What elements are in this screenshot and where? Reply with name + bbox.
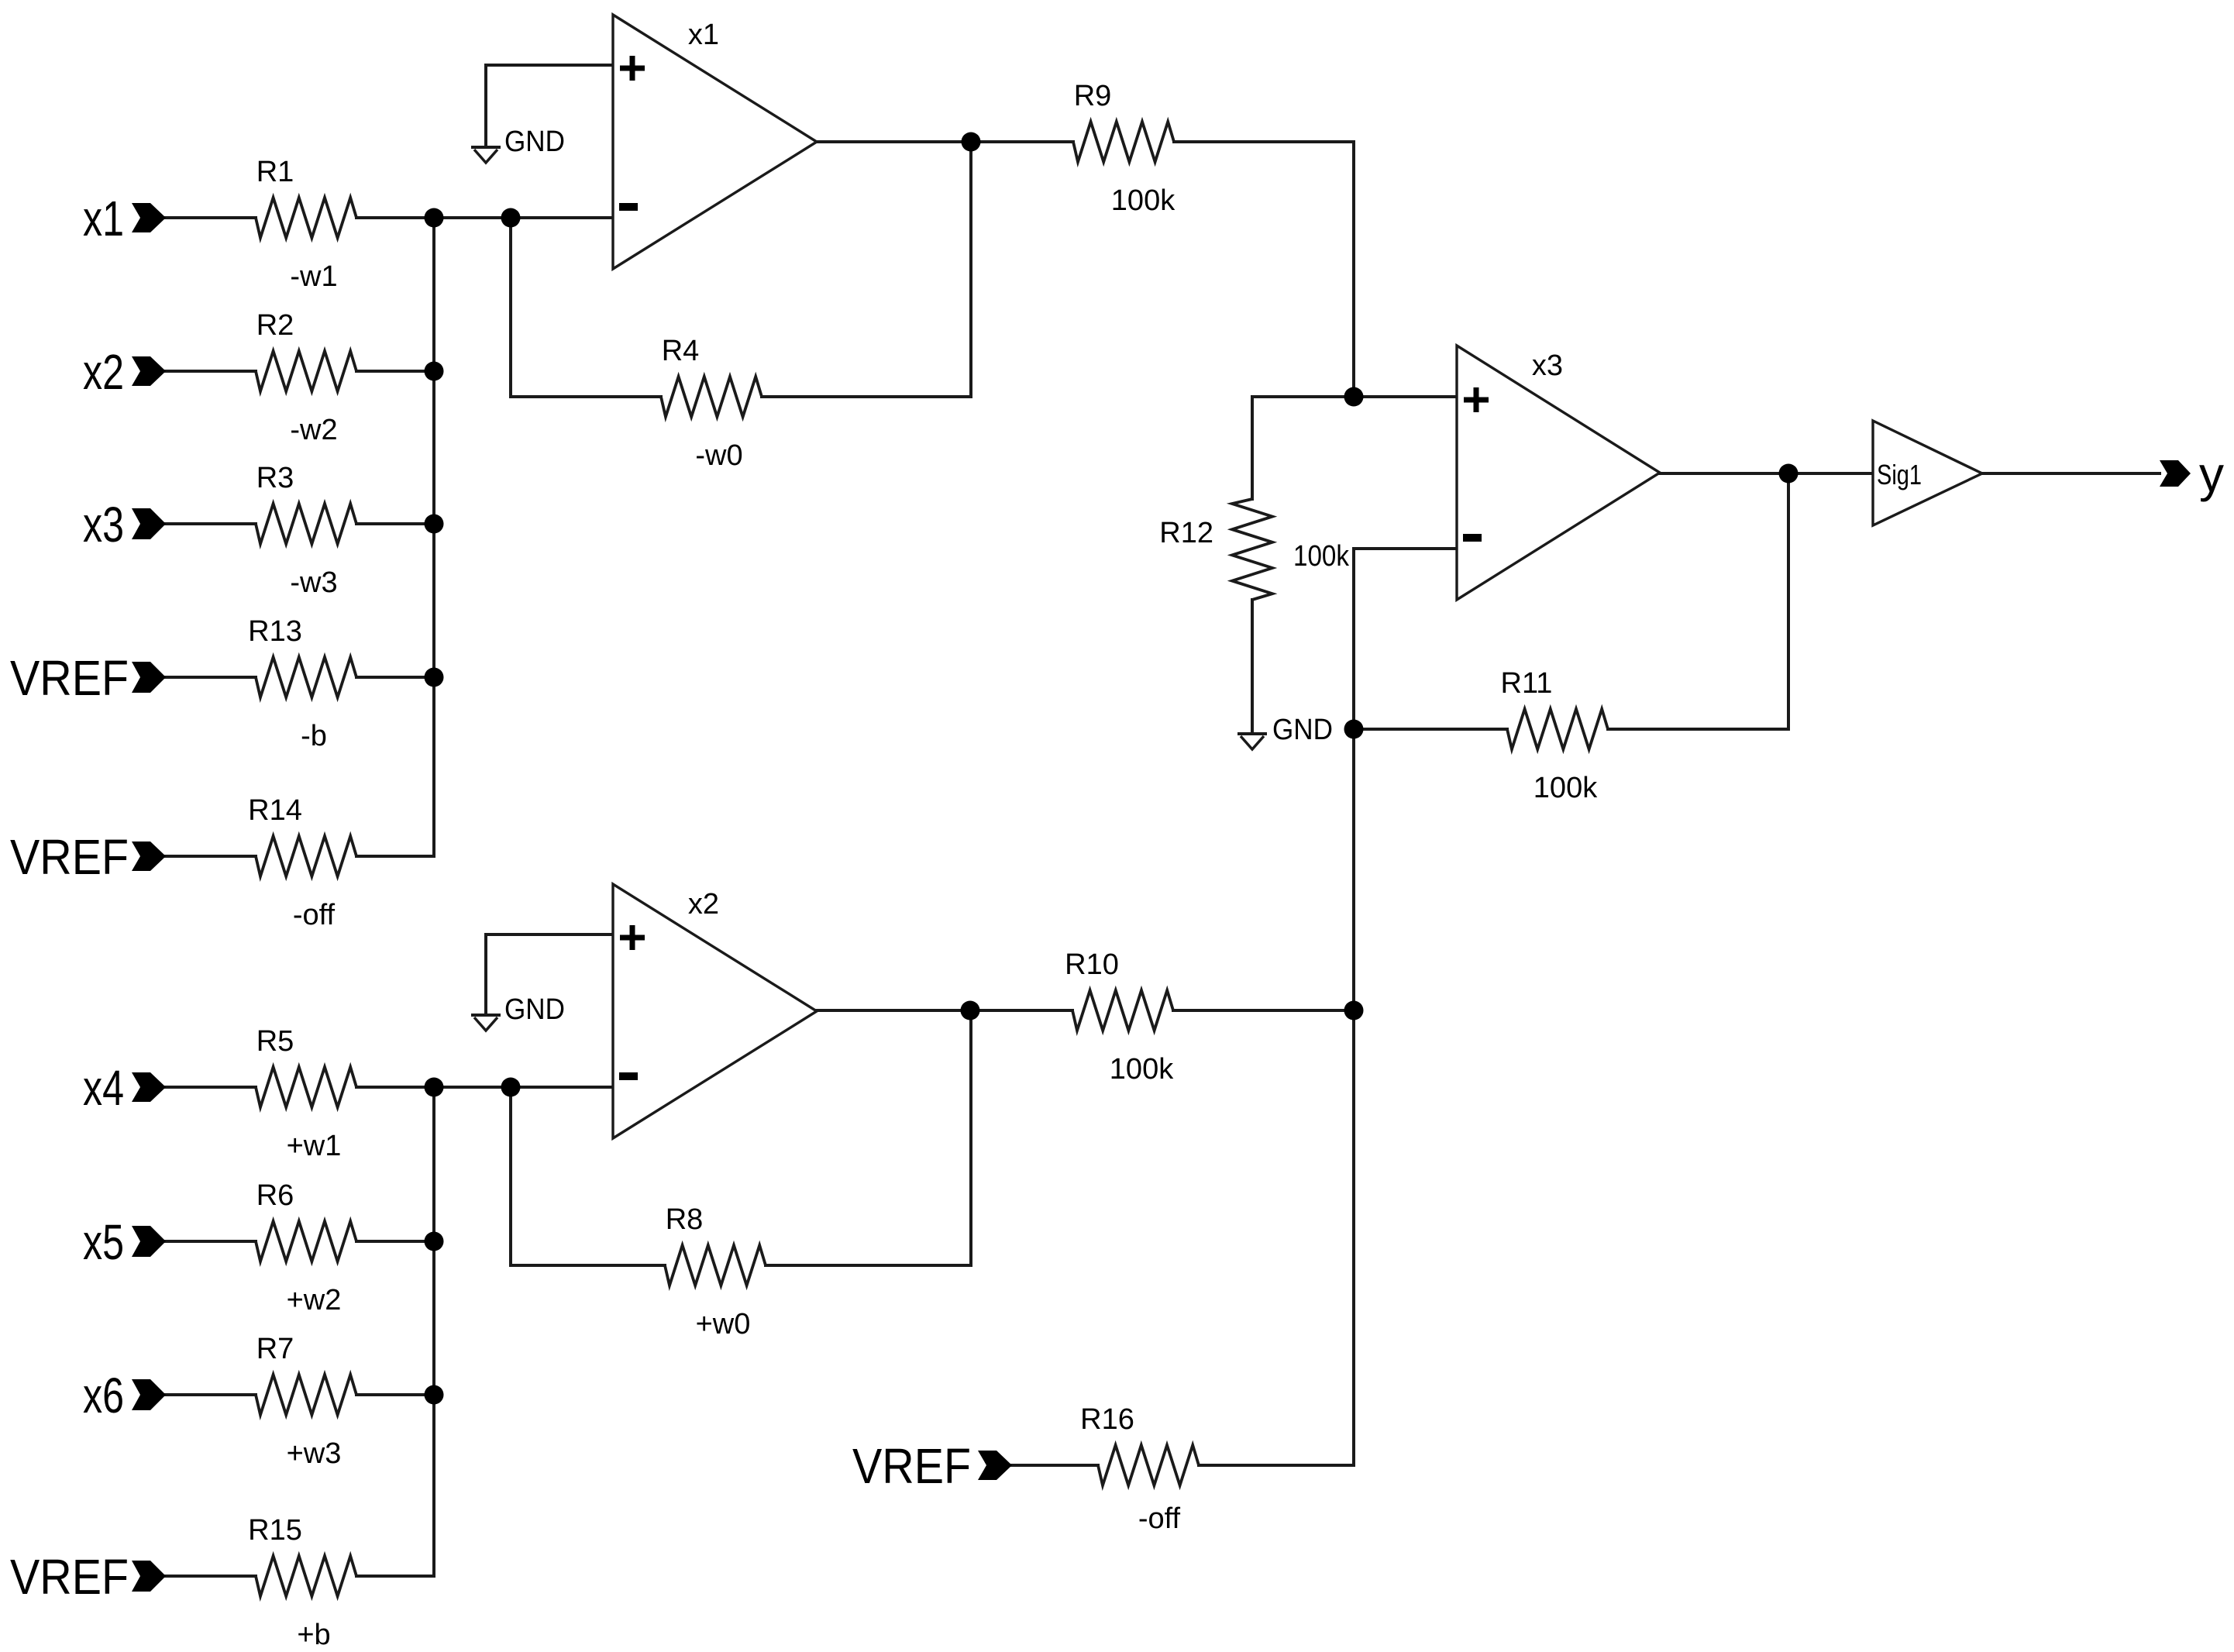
svg-text:x6: x6 — [83, 1368, 124, 1423]
svg-text:R1: R1 — [256, 156, 294, 188]
svg-text:-b: -b — [301, 720, 327, 752]
svg-text:R8: R8 — [666, 1203, 704, 1236]
svg-text:R13: R13 — [248, 615, 302, 648]
svg-text:x3: x3 — [1532, 349, 1563, 382]
svg-text:R14: R14 — [248, 794, 302, 827]
svg-text:+w2: +w2 — [287, 1284, 342, 1316]
svg-text:R3: R3 — [256, 462, 294, 494]
svg-text:R16: R16 — [1080, 1403, 1134, 1436]
svg-text:x5: x5 — [83, 1214, 124, 1270]
svg-text:R10: R10 — [1065, 948, 1119, 981]
svg-text:R12: R12 — [1159, 517, 1213, 549]
svg-text:-off: -off — [293, 899, 336, 931]
svg-text:R9: R9 — [1074, 80, 1112, 112]
svg-text:GND: GND — [1272, 714, 1333, 746]
svg-text:GND: GND — [504, 126, 565, 158]
svg-text:-w3: -w3 — [290, 566, 337, 599]
svg-text:x3: x3 — [83, 497, 124, 552]
svg-text:x1: x1 — [688, 19, 719, 51]
svg-text:VREF: VREF — [10, 1549, 129, 1605]
svg-text:+w1: +w1 — [287, 1130, 342, 1162]
svg-text:-w1: -w1 — [290, 260, 337, 293]
svg-text:100k: 100k — [1111, 184, 1176, 217]
svg-text:+w0: +w0 — [696, 1308, 751, 1341]
svg-text:-off: -off — [1138, 1502, 1181, 1535]
svg-text:y: y — [2199, 446, 2224, 502]
svg-text:VREF: VREF — [10, 650, 129, 706]
svg-text:R4: R4 — [662, 335, 700, 367]
svg-text:R11: R11 — [1501, 667, 1553, 700]
svg-text:R2: R2 — [256, 309, 294, 342]
svg-text:+w3: +w3 — [287, 1437, 342, 1470]
svg-text:R6: R6 — [256, 1179, 294, 1212]
svg-text:GND: GND — [504, 993, 565, 1026]
svg-text:+b: +b — [297, 1619, 330, 1648]
svg-text:VREF: VREF — [852, 1438, 971, 1494]
svg-text:Sig1: Sig1 — [1877, 459, 1922, 490]
svg-text:-w2: -w2 — [290, 414, 337, 446]
svg-text:-w0: -w0 — [695, 439, 742, 472]
svg-text:R15: R15 — [248, 1514, 302, 1547]
svg-text:x2: x2 — [688, 888, 719, 921]
svg-text:VREF: VREF — [10, 829, 129, 885]
svg-text:x2: x2 — [83, 344, 124, 400]
svg-text:R5: R5 — [256, 1025, 294, 1058]
svg-text:100k: 100k — [1293, 540, 1350, 573]
svg-text:100k: 100k — [1110, 1053, 1174, 1086]
svg-text:100k: 100k — [1534, 772, 1598, 804]
svg-text:x4: x4 — [83, 1060, 124, 1116]
svg-text:R7: R7 — [256, 1333, 294, 1365]
svg-text:x1: x1 — [83, 191, 124, 246]
